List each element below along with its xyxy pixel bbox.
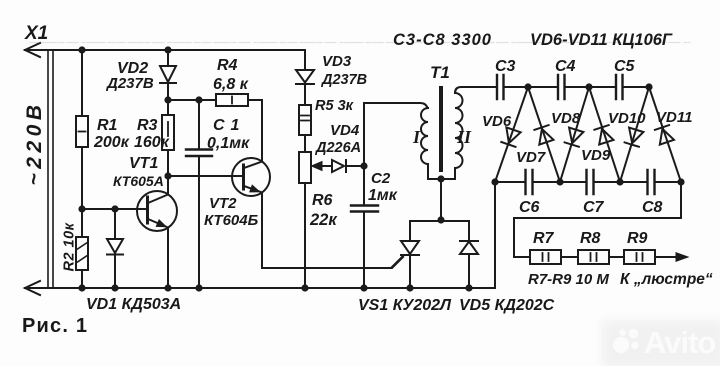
svg-text:С8: С8 [642,199,663,216]
transformer T1 primary winding I [421,108,428,179]
svg-text:R9: R9 [627,230,648,247]
resistor R3 [162,100,174,176]
svg-text:КТ604Б: КТ604Б [204,212,259,229]
diode VD11 [649,87,681,182]
diode VD6 [495,87,528,182]
diode VD5 [460,221,478,288]
svg-text:К „люстре“: К „люстре“ [620,271,713,288]
wire multiplier top rail [464,86,649,88]
svg-text:Рис. 1: Рис. 1 [22,315,88,337]
resistor R2 [76,209,88,288]
svg-text:VT2: VT2 [209,195,237,212]
resistor R6 (variable) [299,152,322,288]
wire bottom rail up to multiplier [494,182,496,288]
transistor VT1 [137,176,177,288]
wire top rail [25,49,305,51]
svg-text:1мк: 1мк [368,187,398,204]
node junction top rail / VD2 [164,46,171,53]
svg-text:R4: R4 [217,57,238,74]
node B0 [491,178,498,185]
capacitor C7 [587,170,594,194]
svg-text:VD1 КД503А: VD1 КД503А [86,296,181,313]
node B1 [556,178,563,185]
resistor R1 [76,50,88,209]
svg-text:R7-R9 10 М: R7-R9 10 М [528,271,609,288]
wire VS1/VD5 top tie [410,220,469,222]
svg-text:VS1 КУ202Л: VS1 КУ202Л [358,297,452,314]
wire C2 node up to T1 primary [364,103,428,166]
transformer T1 core [439,88,443,170]
node junction VS1 bottom rail [406,284,413,291]
node junction VD2/R3/R4 net [164,96,171,103]
svg-text:С7: С7 [583,199,605,216]
svg-text:С6: С6 [519,199,540,216]
svg-text:С3-С8 3300: С3-С8 3300 [393,31,492,49]
node junction VT1 emitter bottom rail [164,284,171,291]
svg-text:VD4: VD4 [330,122,360,139]
svg-text:R2 10к: R2 10к [62,222,78,271]
node A3 [645,83,652,90]
svg-text:II: II [456,127,472,147]
resistor R9 [624,250,676,264]
svg-text:VD10: VD10 [608,110,646,127]
svg-text:Д237В: Д237В [105,75,154,92]
node junction VD1 top [111,205,118,212]
node junction T1 windings bottom [437,175,444,182]
svg-text:R7: R7 [533,230,555,247]
node junction VD5 bottom rail [465,284,472,291]
capacitor C3 [497,75,504,99]
svg-text:R5 3к: R5 3к [315,98,354,114]
node junction C1 top [195,96,202,103]
resistor R8 [578,250,624,264]
node B3 [677,178,684,185]
svg-text:С2: С2 [371,170,391,187]
wire VD2 node to R4/C1 [168,99,216,101]
diode VD4 [321,160,364,172]
svg-text:160к: 160к [134,134,170,151]
resistor R7 [530,250,578,264]
diode VD3 [296,50,314,105]
connector X1 top pin arrow [25,43,40,57]
svg-text:R1: R1 [97,117,118,134]
node A2 [585,83,592,90]
svg-text:Д226А: Д226А [314,140,361,156]
node junction R3/VT1 collector/VT2 base [164,172,171,179]
svg-text:С5: С5 [614,58,636,75]
svg-text:R8: R8 [580,230,601,247]
node junction R6 bottom rail [301,284,308,291]
svg-text:22к: 22к [309,211,338,229]
svg-text:Avito: Avito [644,325,715,360]
svg-text:VD11: VD11 [656,109,692,126]
wire base net [82,208,147,210]
scan artifact line [30,42,690,44]
wire B3 to output chain [514,182,681,257]
capacitor C2 [351,166,378,288]
svg-text:VD6: VD6 [482,113,512,130]
wire VT1 to VT2 base [168,175,244,177]
diode VD2 [160,50,176,100]
node B2 [616,178,623,185]
node junction R2 bottom rail [78,284,85,291]
transformer T1 secondary winding II [455,87,465,179]
mains cord line right [52,51,54,287]
node A1 [524,83,531,90]
svg-text:С4: С4 [555,58,576,75]
capacitor C5 [616,75,623,99]
diode VD1 [107,209,123,288]
diode VD8 [560,87,589,182]
node junction top rail / R1 [78,46,85,53]
node junction VD4/C2/T1 primary [360,162,367,169]
svg-text:X1: X1 [24,23,48,44]
node junction VD1 bottom rail [111,284,118,291]
capacitor C4 [558,75,565,99]
capacitor C1 [186,100,212,288]
mains cord line left [47,51,49,287]
Avito watermark [602,320,720,366]
wire multiplier bottom rail [495,181,681,183]
svg-text:Т1: Т1 [430,63,450,82]
svg-text:VD5 КД202С: VD5 КД202С [459,297,555,314]
node junction C1 bottom rail [195,284,202,291]
svg-text:~220В: ~220В [23,101,46,186]
capacitor C8 [648,170,655,194]
node junction VS1/VD5 top [437,216,444,223]
output arrow to chandelier [676,253,688,262]
svg-text:VT1: VT1 [129,155,158,172]
wire T1 bottom to VS1/VD5 [440,179,442,221]
svg-text:Д237В: Д237В [320,72,367,88]
svg-text:VD6-VD11 КЦ106Г: VD6-VD11 КЦ106Г [530,31,673,49]
svg-text:VD7: VD7 [516,149,546,166]
diode VD10 [620,87,649,182]
svg-text:КТ605А: КТ605А [113,173,164,189]
resistor R4 [216,94,262,106]
diode VD7 [528,87,560,182]
svg-text:I: I [412,127,421,147]
svg-text:6,8 к: 6,8 к [213,76,249,93]
connector X1 bottom pin arrow [25,281,40,295]
node junction C2 bottom rail [360,284,367,291]
resistor R5 [299,105,311,152]
node junction R1/R2/base net [78,205,85,212]
wire bottom rail [25,287,495,289]
wire VT2 emitter to VS1 gate [262,257,403,268]
capacitor C6 [526,170,533,194]
thyristor VS1 [392,221,419,288]
wire R4 to VT2 collector [261,100,263,162]
svg-text:VD8: VD8 [551,110,581,127]
svg-text:R6: R6 [312,192,333,209]
transistor VT2 [232,158,270,268]
svg-text:0,1мк: 0,1мк [207,135,250,152]
svg-text:VD3: VD3 [322,53,352,70]
svg-text:200к: 200к [93,134,130,151]
diode VD9 [589,87,620,182]
svg-text:R3: R3 [137,117,158,134]
svg-text:VD9: VD9 [581,147,611,164]
svg-text:С3: С3 [495,58,516,75]
wire T1 bottom tie [428,178,455,180]
svg-text:С1: С1 [213,117,245,134]
